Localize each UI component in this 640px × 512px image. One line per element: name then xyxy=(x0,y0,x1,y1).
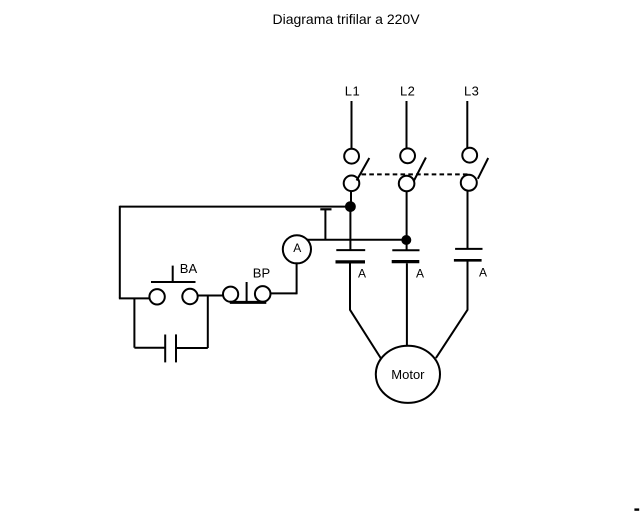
wire L3 contact to motor xyxy=(436,262,468,359)
switch KM1-L2 upper terminal xyxy=(400,148,415,163)
pushbutton BP stem xyxy=(246,282,248,301)
wire L2 contact to motor xyxy=(406,263,408,346)
motor M xyxy=(376,346,440,403)
svg-text:A: A xyxy=(358,267,366,281)
wire BP to coil xyxy=(271,292,297,294)
mechanical link dashed xyxy=(362,173,469,175)
pushbutton BA right terminal xyxy=(182,289,197,304)
wire L2 feed xyxy=(406,101,408,149)
switch KM1-L1 upper terminal xyxy=(344,149,359,164)
svg-text:L1: L1 xyxy=(345,84,360,99)
contact A main L3 top plate xyxy=(455,248,482,250)
switch KM1-L3 blade xyxy=(478,158,488,179)
svg-text:L2: L2 xyxy=(400,84,415,99)
contact A seal-in right plate xyxy=(175,334,177,362)
node L1 junction dot xyxy=(345,201,356,212)
contact A main L2 top plate xyxy=(392,249,419,251)
wire seal-in left drop xyxy=(133,298,135,347)
svg-text:BP: BP xyxy=(253,265,270,280)
pushbutton BA stem xyxy=(172,266,174,282)
svg-text:A: A xyxy=(479,266,487,280)
wire L3 feed xyxy=(466,101,468,148)
wire L2 node to contact xyxy=(406,240,408,250)
wire seal-in right riser xyxy=(207,296,209,348)
contact A main L1 bottom plate xyxy=(336,260,366,263)
coil A xyxy=(283,235,311,263)
wire BA to BP xyxy=(198,295,223,297)
switch KM1-L2 blade xyxy=(414,158,426,182)
svg-text:BA: BA xyxy=(180,261,198,276)
switch KM1-L3 upper terminal xyxy=(462,148,477,163)
wire seal-in left lead xyxy=(134,347,165,349)
wire coil drop xyxy=(296,262,298,294)
svg-text:A: A xyxy=(293,241,301,255)
contact A main L1 top plate xyxy=(336,249,365,251)
wire L1 switch to node xyxy=(350,191,352,207)
wire control top rail xyxy=(120,206,351,208)
wire L3 switch to contact xyxy=(467,191,469,249)
pushbutton BA bar xyxy=(151,281,196,283)
svg-text:A: A xyxy=(416,267,424,281)
wire seal-in right lead xyxy=(176,347,208,349)
wire coil to L2 node xyxy=(307,239,407,241)
wire L1 node to contact xyxy=(349,207,351,250)
pushbutton BA left terminal xyxy=(149,289,164,304)
contact A seal-in left plate xyxy=(164,335,166,363)
contact A main L2 bottom plate xyxy=(392,260,420,263)
contact A main L3 bottom plate xyxy=(454,259,482,262)
pushbutton BP left terminal xyxy=(223,287,238,302)
wire L2 switch to node xyxy=(406,191,408,240)
switch KM1-L3 lower terminal xyxy=(461,175,477,191)
pushbutton BP bar xyxy=(230,301,266,304)
wire L1 feed xyxy=(351,101,353,149)
corner mark xyxy=(634,508,639,510)
svg-text:L3: L3 xyxy=(464,84,479,99)
svg-text:Motor: Motor xyxy=(391,367,425,382)
wire L1 contact to motor xyxy=(350,263,381,358)
switch KM1-L2 lower terminal xyxy=(399,176,415,192)
switch KM1-L1 blade xyxy=(357,158,370,181)
svg-text:Diagrama trifilar a 220V: Diagrama trifilar a 220V xyxy=(272,11,420,27)
pushbutton BP right terminal xyxy=(255,286,271,302)
wire left rail to BA xyxy=(119,297,150,299)
wire stub rail to coil wire xyxy=(324,209,326,240)
node L2 junction dot xyxy=(401,235,411,245)
wire control left rail xyxy=(119,206,121,299)
stub tick xyxy=(320,208,331,210)
switch KM1-L1 lower terminal xyxy=(344,176,360,192)
